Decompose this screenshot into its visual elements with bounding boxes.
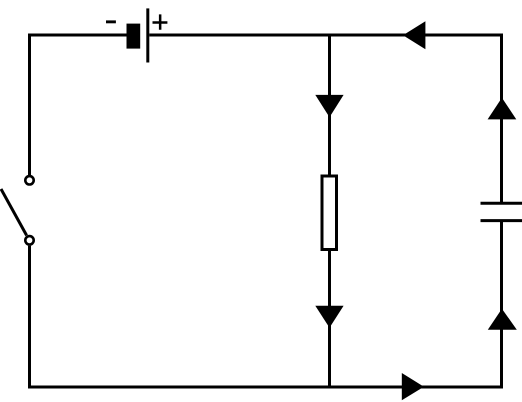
capacitor C1 bottom plate <box>481 219 522 222</box>
current arrow on middle branch upper lead pointing down <box>315 95 343 117</box>
wire right rail upper segment (top-right corner down to capacitor) <box>500 34 503 204</box>
battery B1 negative plate (short thick bar) <box>127 24 141 49</box>
wire middle branch upper lead (top rail junction down to resistor) <box>328 35 331 177</box>
current arrow on right rail upper segment pointing up <box>488 98 517 120</box>
wire left rail upper segment (top-left corner down to switch) <box>28 34 31 176</box>
resistor R1 (open rectangle body) <box>322 176 337 250</box>
switch S1 lever arm (open) <box>1 189 27 235</box>
current arrow on middle branch lower lead pointing down <box>315 306 343 328</box>
switch S1 lower contact terminal <box>25 236 33 244</box>
capacitor C1 top plate <box>481 202 522 205</box>
battery B1 minus polarity label <box>106 20 116 23</box>
current arrow on bottom rail pointing right <box>402 373 424 400</box>
battery B1 positive plate (long thin bar) <box>146 8 149 62</box>
wire right rail lower segment (capacitor down to bottom-right corner) <box>500 221 503 389</box>
battery B1 plus polarity label <box>153 14 168 29</box>
wire top rail left segment (battery left lead) <box>28 34 127 37</box>
wire bottom rail <box>28 386 503 389</box>
wire middle branch lower lead (resistor down to bottom rail junction) <box>328 249 331 388</box>
current arrow on top rail pointing left <box>403 21 425 49</box>
switch S1 upper contact terminal <box>25 176 33 184</box>
wire top rail right segment (from battery to top-right corner) <box>149 34 503 37</box>
current arrow on right rail lower segment pointing up <box>488 309 517 330</box>
wire left rail lower segment (switch down to bottom-left corner) <box>28 246 31 389</box>
